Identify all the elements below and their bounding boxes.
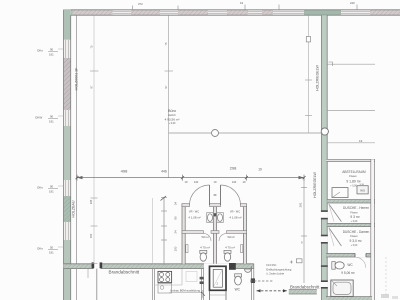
svg-text:Fliesen: Fliesen (350, 212, 358, 214)
svg-text:OKn: OKn (37, 247, 43, 251)
svg-text:9 1,89 m²: 9 1,89 m² (346, 180, 361, 184)
svg-text:OKn: OKn (37, 186, 43, 190)
svg-text:WC-D: WC-D (227, 235, 234, 239)
svg-text:372: 372 (138, 2, 143, 6)
wall brandabschnitt main (64, 262, 254, 269)
wall left window 3 (64, 180, 71, 196)
wall left segment green 3 (64, 240, 71, 300)
svg-text:19: 19 (359, 139, 363, 143)
corridor wall line bottom-left (96, 269, 98, 300)
WC bottom-middle room right wall (252, 264, 254, 300)
svg-text:HOLZRIEGELW: HOLZRIEGELW (313, 171, 317, 197)
arrow tick at dim top (161, 196, 167, 201)
svg-text:150: 150 (174, 246, 178, 251)
svg-text:F13 0hC: F13 0hC (266, 263, 276, 267)
room Abstellraum labels (342, 170, 366, 188)
svg-text:191: 191 (49, 53, 54, 57)
escape route dashed line upper (250, 280, 274, 282)
svg-text:Fliesen: Fliesen (349, 176, 357, 178)
svg-text:WS: WS (360, 189, 365, 193)
svg-text:34: 34 (174, 202, 178, 206)
svg-text:Brandabschnitt: Brandabschnitt (109, 270, 140, 275)
door gap wc right bottom (321, 282, 328, 288)
svg-text:+ 0,00: + 0,00 (169, 122, 176, 125)
svg-text:VR - WC: VR - WC (230, 209, 240, 213)
svg-text:4 70 m²: 4 70 m² (200, 245, 210, 249)
svg-text:HOLZ0001 3F: HOLZ0001 3F (75, 67, 79, 91)
door gap shower herren (321, 211, 328, 218)
svg-text:ABSTELLRAUM: ABSTELLRAUM (342, 170, 366, 174)
right side reference line 3 (327, 139, 375, 143)
right side reference line 2 (327, 110, 375, 112)
svg-text:4 70 m²: 4 70 m² (225, 245, 235, 249)
svg-text:Umbau B0M-ausbildung: Umbau B0M-ausbildung (170, 289, 200, 293)
stove with burners (158, 271, 172, 282)
room Dusche Herren (329, 204, 369, 223)
svg-text:OKW: OKW (35, 116, 42, 120)
door arc right (VR WC-D) (221, 185, 241, 205)
room Dusche Damen (329, 228, 370, 247)
Abstellraum door rect (332, 188, 348, 198)
svg-text:4 1,08 m²: 4 1,08 m² (188, 216, 200, 220)
svg-text:VR - WC: VR - WC (189, 209, 199, 213)
bottom right faint smudges (381, 257, 398, 299)
svg-text:9 3 m²: 9 3 m² (350, 215, 360, 219)
svg-text:345: 345 (89, 199, 93, 204)
column circle on wall (321, 128, 328, 135)
svg-text:191: 191 (49, 190, 54, 194)
interior reference line vertical (168, 16, 170, 178)
wall B Abstellraum/Dusche-Herren (327, 200, 375, 203)
interior reference line horizontal with circles (169, 130, 322, 137)
svg-text:DUSCHE - Herren: DUSCHE - Herren (343, 206, 369, 210)
bathtub WC right (331, 280, 353, 296)
svg-text:446: 446 (161, 169, 167, 173)
svg-text:4 93,56 m²: 4 93,56 m² (165, 118, 180, 122)
vertical dimension chain left of WC block (161, 198, 178, 265)
wall left exterior (64, 10, 77, 300)
svg-text:ü. 2nden Lichte: ü. 2nden Lichte (266, 271, 284, 275)
svg-text:240: 240 (350, 1, 355, 5)
kitchen sink unit (158, 283, 172, 293)
wall top window 4 (248, 10, 262, 15)
svg-text:191: 191 (49, 120, 54, 124)
toilet bottom-middle WC (235, 274, 242, 285)
svg-text:9 5,06 m²: 9 5,06 m² (341, 271, 354, 275)
svg-text:+ 0,00: + 0,00 (351, 221, 358, 223)
svg-text:90: 90 (50, 185, 54, 189)
wall left inner face line (76, 15, 78, 264)
leaf connector tick (214, 194, 217, 195)
svg-text:Büro: Büro (168, 109, 176, 113)
toilet WC-H (200, 250, 207, 261)
interior faint line x94 (89, 16, 99, 264)
wall bottom of WC right room (326, 297, 372, 300)
small tick below wall corridor (87, 269, 89, 278)
shaft lower extension (210, 291, 227, 300)
top dimension ticks (133, 1, 358, 10)
door dark jamb near wc (229, 263, 236, 270)
Abstellraum cabinet WS (357, 184, 368, 194)
svg-text:130: 130 (194, 180, 199, 184)
middle wall dark blob (214, 213, 216, 216)
svg-text:OKn: OKn (37, 49, 43, 53)
escape route annotation text (266, 263, 292, 275)
wall left window 1 (64, 40, 71, 58)
wall top segment hatch 2 (131, 10, 160, 15)
svg-text:130: 130 (232, 180, 237, 184)
svg-text:WC: WC (235, 288, 241, 292)
plus mark (290, 261, 293, 264)
wall top segment hatch 4 (227, 10, 248, 15)
right side reference line 1 (327, 62, 375, 66)
wall top exterior (64, 10, 400, 15)
wall brandabschnitt lower segment (289, 290, 317, 294)
svg-text:HOLZBAU: HOLZBAU (72, 200, 76, 217)
door gap in wall D (355, 253, 366, 268)
wall center vertical (Hubmann) (313, 15, 328, 300)
radiator left wall (186, 245, 188, 253)
wall C Herren/Damen (327, 223, 375, 226)
wall right of right rooms (371, 159, 375, 300)
margin label OK 2 (35, 115, 64, 124)
wall top segment hatch 3 (178, 10, 208, 15)
wall D Damen/WC (326, 253, 372, 257)
svg-text:191: 191 (49, 251, 54, 255)
wall top segment hatch 5 (262, 10, 273, 15)
elevator shaft (210, 266, 227, 290)
door arc left (VR WC-H) (190, 185, 210, 205)
toilet WC-D (224, 250, 231, 261)
WC block inner wall with doors (182, 231, 247, 241)
svg-text:498: 498 (121, 169, 128, 174)
wall top window 1 (113, 10, 132, 15)
escape route dashed line lower with arrows (257, 289, 288, 292)
svg-text:281: 281 (298, 202, 302, 207)
svg-text:90: 90 (174, 216, 178, 220)
wall left segment hatch 2 (wood) (64, 196, 71, 222)
wall left window 2 (64, 110, 71, 126)
radiator right wall (241, 245, 243, 253)
sink left (207, 213, 214, 223)
WC-H / WC-D labels (200, 235, 235, 249)
room label Buero (165, 109, 180, 125)
door gap shower damen (321, 236, 328, 243)
svg-text:34: 34 (174, 230, 178, 234)
svg-text:150: 150 (89, 233, 93, 238)
svg-text:Entfluchtungsrichtung: Entfluchtungsrichtung (266, 267, 292, 271)
svg-text:HOLZRIEGELW: HOLZRIEGELW (316, 64, 320, 90)
WC block top wall segments (182, 204, 247, 207)
svg-text:50: 50 (50, 246, 54, 250)
door gap in brandabschnitt (94, 263, 101, 269)
wall top window 3 (208, 10, 227, 15)
wall top segment green corner (64, 10, 73, 15)
WC block middle: left wall (182, 204, 185, 264)
wall left window 4 (64, 222, 71, 240)
small rect fixture near wall (296, 259, 302, 263)
wall top segment green junction (304, 10, 341, 15)
margin label OK 4 (37, 246, 64, 255)
svg-text:DUSCHE - Damen: DUSCHE - Damen (343, 230, 370, 234)
kitchen room left wall (152, 269, 154, 300)
svg-text:90: 90 (50, 48, 54, 52)
wall left segment hatch 1 (wood) (64, 58, 71, 110)
door gap at kitchen/shaft (204, 263, 229, 269)
toilet WC right (332, 262, 344, 270)
sink right (217, 213, 224, 223)
svg-text:WC: WC (347, 263, 353, 267)
kitchen counter edge (155, 284, 182, 286)
svg-text:+ 0,00: + 0,00 (351, 245, 358, 247)
WC block right wall (243, 204, 246, 264)
wall top segment hatch 6 (370, 10, 400, 15)
svg-text:+ 0,00: + 0,00 (350, 186, 357, 188)
door jamb wc room right wall (251, 278, 255, 283)
wall left segment green 2 (64, 126, 71, 180)
svg-text:90: 90 (50, 115, 54, 119)
svg-text:9 3,0 m²: 9 3,0 m² (349, 239, 362, 243)
svg-text:298: 298 (230, 165, 237, 170)
interior faint line x308 (305, 16, 312, 134)
VR labels (188, 209, 241, 219)
room WC right labels (341, 263, 354, 275)
small vertical ref line right of wc block (298, 178, 307, 283)
wall top segment hatch 1 (73, 10, 113, 15)
wall left segment green 1 (64, 10, 71, 40)
wall top window 2 (160, 10, 178, 15)
kitchen right wall marks (200, 269, 204, 300)
faint line to kitchen wall (151, 198, 153, 264)
margin label OK 3 (37, 185, 64, 194)
wall top window 5 (273, 10, 304, 15)
svg-text:Brandabschnitt: Brandabschnitt (290, 284, 320, 289)
svg-text:WC-H: WC-H (201, 235, 208, 239)
svg-text:Fliesen: Fliesen (350, 236, 358, 238)
svg-text:4 1,08 m²: 4 1,08 m² (229, 216, 241, 220)
sub dimension labels 130 (185, 180, 246, 184)
svg-text:19: 19 (240, 1, 244, 5)
WC block middle wall (213, 204, 216, 264)
svg-text:19: 19 (258, 167, 262, 171)
dim ticks below kitchen (201, 290, 205, 298)
wall A top of Abstellraum (326, 159, 375, 161)
main horizontal dimension line (76, 165, 306, 180)
sink bottom-middle WC (244, 269, 251, 272)
margin label OK 1 (37, 48, 64, 57)
wall top window 6 (341, 10, 370, 15)
